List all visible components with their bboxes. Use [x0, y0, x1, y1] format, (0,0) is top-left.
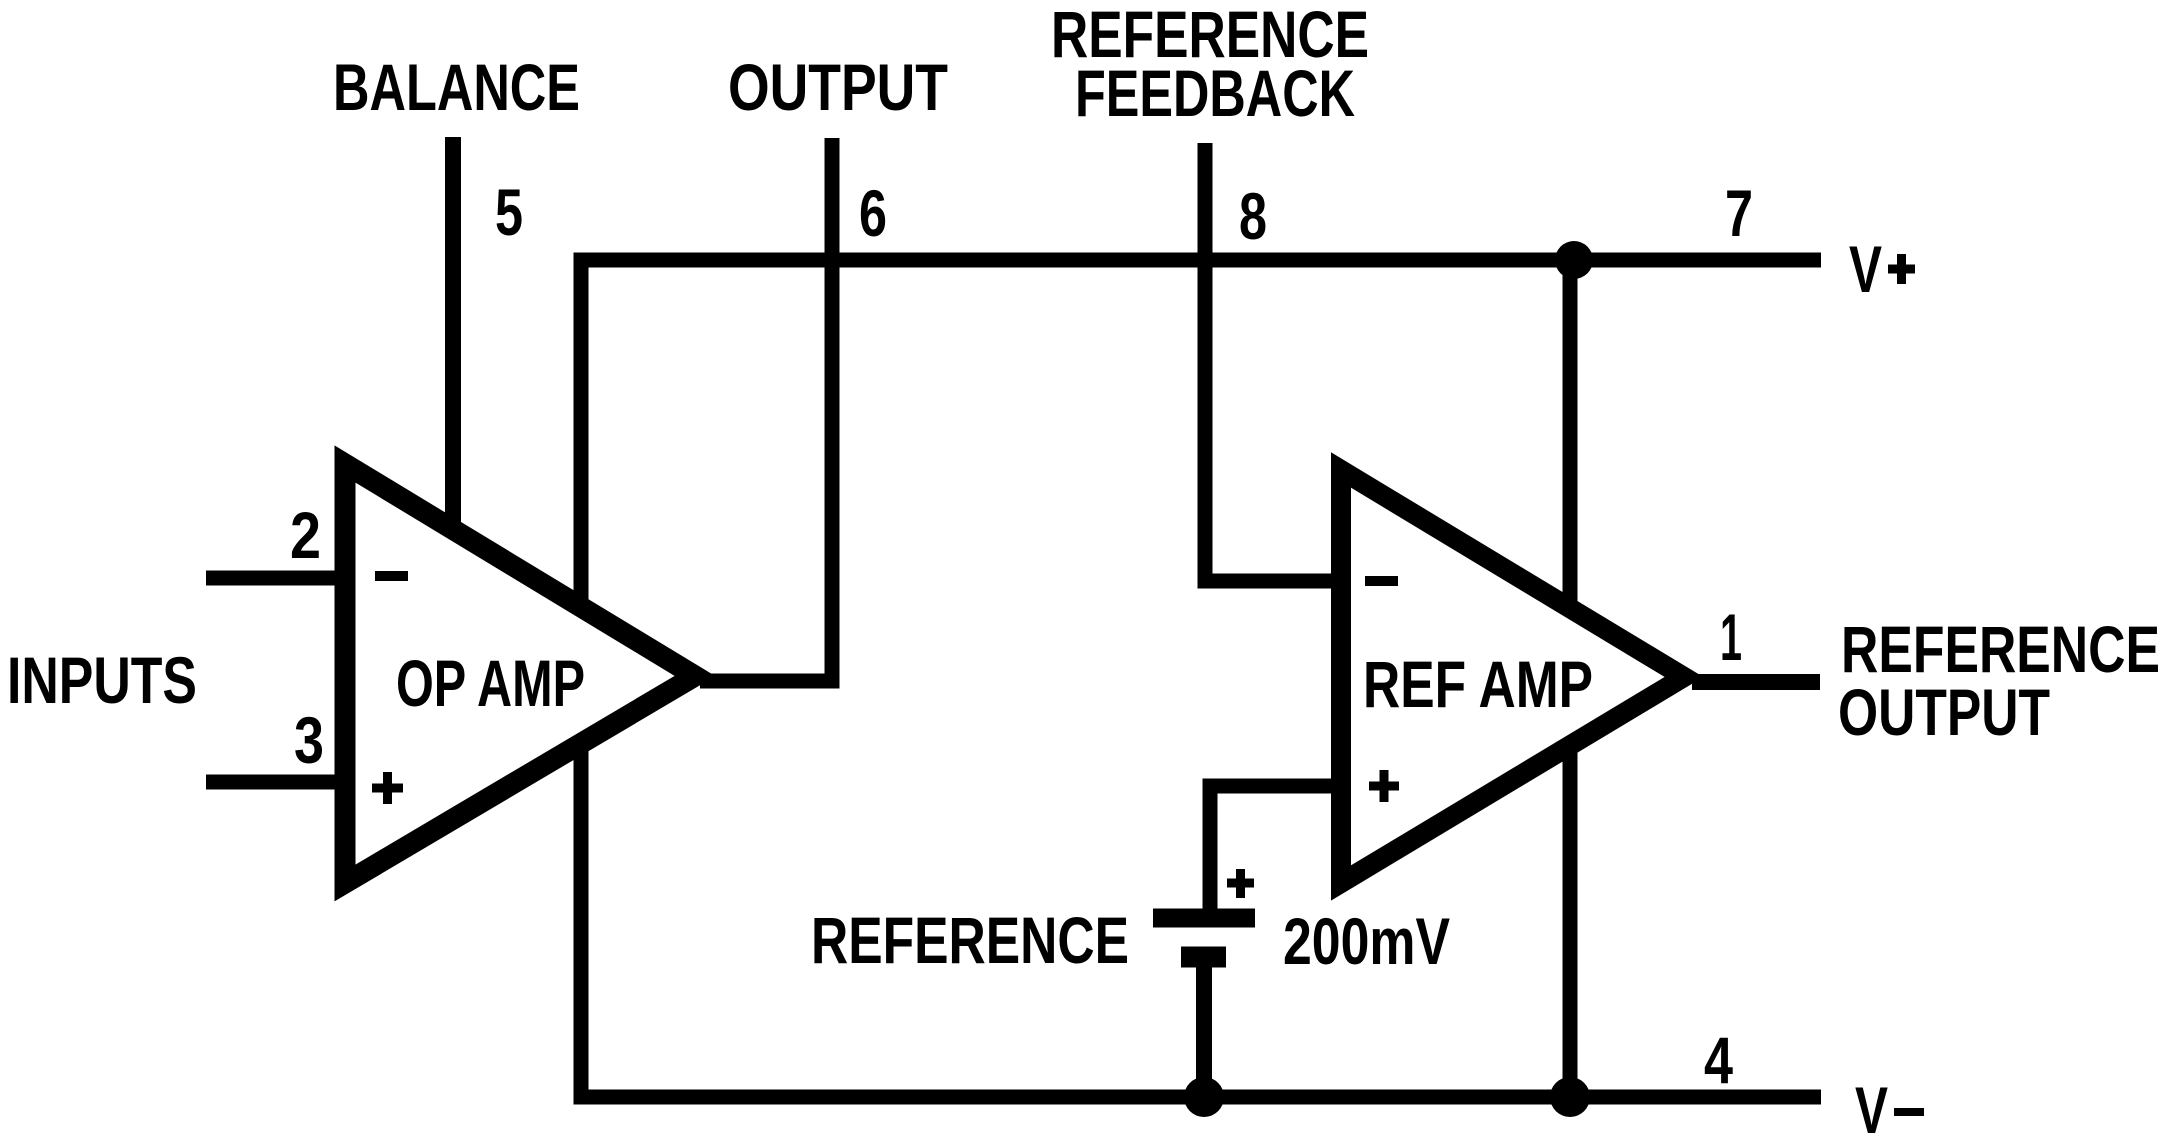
svg-text:1: 1	[1720, 600, 1742, 674]
svg-text:V: V	[1849, 232, 1882, 306]
wire: V+ rail junction down through ref amp to V- rail	[1563, 260, 1578, 1097]
svg-text:3: 3	[294, 703, 324, 777]
wire: battery negative to V- rail	[1196, 962, 1212, 1097]
wire: balance pin 5 vertical into op-amp top edge	[445, 137, 461, 540]
svg-text:2: 2	[290, 498, 321, 572]
wire: non-inverting input pin 3	[206, 775, 352, 790]
wire: ref amp non-inverting input to battery top	[1210, 786, 1352, 925]
svg-text:OUTPUT: OUTPUT	[728, 50, 948, 124]
battery: reference cell negative plate	[1181, 947, 1226, 968]
svg-text:OP AMP: OP AMP	[396, 646, 585, 720]
junction dot: battery to V- rail	[1184, 1077, 1224, 1117]
wire: V- bottom rail with left corner up to op-amp V- pin	[581, 742, 1821, 1097]
svg-text:REF AMP: REF AMP	[1363, 647, 1593, 721]
op-amp U1 triangle	[345, 464, 695, 883]
svg-text:FEEDBACK: FEEDBACK	[1075, 56, 1355, 130]
op-amp non-inverting input plus sign	[372, 772, 403, 804]
battery: reference cell 200mV positive plate	[1153, 909, 1255, 928]
svg-text:5: 5	[495, 175, 523, 249]
ref amp inverting input minus sign	[1365, 576, 1398, 586]
op-amp inverting input minus sign	[375, 571, 408, 581]
svg-text:REFERENCE: REFERENCE	[811, 903, 1129, 977]
svg-text:8: 8	[1239, 179, 1267, 253]
svg-text:BALANCE: BALANCE	[333, 50, 580, 124]
wire: V+ top rail with left corner down to op-amp V+ pin	[581, 260, 1821, 612]
svg-text:6: 6	[859, 176, 887, 250]
wire: inverting input pin 2	[206, 571, 352, 586]
svg-text:INPUTS: INPUTS	[7, 643, 197, 717]
junction dot: V+ rail / ref amp supply	[1555, 241, 1593, 279]
svg-text:200mV: 200mV	[1283, 904, 1450, 978]
junction dot: ref amp supply to V- rail	[1550, 1077, 1590, 1117]
svg-text:OUTPUT: OUTPUT	[1838, 675, 2050, 749]
op-amp U2 (ref amp) triangle	[1341, 470, 1684, 883]
battery polarity plus sign	[1227, 869, 1254, 898]
wire: reference output pin 1	[1692, 674, 1820, 690]
wire: reference feedback pin 8 vertical down across V+ rail to ref amp inverting input	[1205, 143, 1352, 581]
svg-text:7: 7	[1725, 176, 1753, 250]
ref amp non-inverting input plus sign	[1369, 770, 1399, 802]
wire: output pin 6 vertical down across V+ rail to op-amp output	[700, 138, 832, 681]
svg-text:4: 4	[1704, 1023, 1733, 1097]
svg-text:V: V	[1855, 1073, 1888, 1139]
